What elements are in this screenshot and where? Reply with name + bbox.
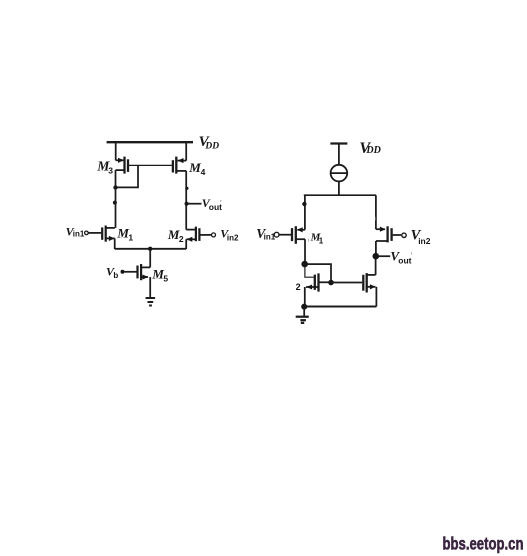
- svg-text:DD: DD: [365, 145, 380, 156]
- M5 label: [151, 266, 168, 283]
- wire Vout stub: [187, 203, 202, 205]
- transistor M5 (NMOS tail source): [125, 249, 151, 298]
- transistor M3 (PMOS, diode-connected): [116, 141, 129, 173]
- Vb label: [106, 265, 118, 280]
- M1 right label: [310, 231, 324, 245]
- ground stem right: [303, 307, 305, 316]
- svg-text:2: 2: [296, 282, 301, 292]
- ground (left circuit): [146, 298, 156, 306]
- svg-text:2: 2: [179, 234, 184, 244]
- svg-text:b: b: [113, 271, 118, 280]
- bottom rail right circuit: [304, 306, 376, 308]
- wire right vertical M4 drain to M2 drain: [185, 171, 187, 230]
- node dot tail: [148, 247, 152, 251]
- M1 label: [116, 225, 133, 242]
- VDD rail: [107, 141, 193, 143]
- node Vout dot: [185, 202, 189, 206]
- svg-text:in1: in1: [73, 230, 85, 239]
- Vin1 label right: [256, 226, 276, 242]
- Vin2 label right: [411, 228, 431, 246]
- svg-text:′: ′: [411, 251, 413, 261]
- wire current source to rail: [338, 181, 340, 195]
- svg-text:1: 1: [128, 232, 133, 242]
- VDD label right: [359, 140, 380, 157]
- M3 label: [96, 158, 113, 175]
- transistor M1 right (PMOS input): [279, 226, 305, 264]
- M4 label: [188, 160, 205, 177]
- svg-text:1: 1: [319, 236, 324, 245]
- Vin2 terminal right: [402, 233, 406, 237]
- transistor M4 (PMOS): [173, 141, 186, 173]
- svg-text:in2: in2: [227, 233, 239, 242]
- wire T-bar to current source: [338, 144, 340, 165]
- Vout label: [202, 196, 222, 212]
- wire mirror gates: [331, 282, 362, 284]
- Vb terminal: [121, 270, 125, 274]
- svg-text:DD: DD: [204, 141, 219, 151]
- node Vout dot right: [373, 253, 380, 260]
- bottom node dot: [301, 304, 307, 310]
- wire gate-to-gate M3-M4: [129, 164, 172, 166]
- wire left vertical to M1 source: [304, 195, 306, 230]
- wire Vin1 to M1 gate: [88, 232, 101, 234]
- node dot lower left: [113, 201, 117, 205]
- node A dot (mirror input): [301, 261, 308, 268]
- svg-text:3: 3: [108, 165, 113, 175]
- wire gate feed (thin) from node A to left mirror gate: [305, 266, 314, 277]
- current source I: [331, 165, 348, 182]
- svg-text:4: 4: [201, 167, 206, 177]
- label 2: [296, 282, 301, 292]
- transistor M2 right (PMOS input, mirrored): [376, 195, 401, 256]
- svg-text:in2: in2: [418, 236, 431, 246]
- wire Vout stub right: [379, 255, 390, 257]
- Vin2 terminal: [212, 233, 216, 237]
- watermark bbs.eetop.cn: [443, 533, 524, 553]
- Vout label right: [390, 249, 412, 266]
- node dot small upper right: [185, 187, 188, 190]
- svg-text:5: 5: [163, 273, 168, 283]
- M2 label: [167, 227, 184, 244]
- Vin1 terminal circle: [85, 231, 89, 235]
- VDD label: [199, 134, 220, 152]
- ground (right circuit): [296, 317, 309, 323]
- scan artifact comma: [308, 239, 310, 242]
- Vin1 label: [66, 224, 85, 238]
- scan artifact tick: [374, 217, 376, 221]
- wire left vertical M3 drain to M1 drain: [115, 170, 117, 228]
- node dot on left rail (diode tie): [113, 185, 117, 189]
- Vin2 label: [220, 227, 239, 243]
- wire diode connection of M3: [116, 165, 139, 187]
- svg-text:bbs.eetop.cn: bbs.eetop.cn: [443, 533, 524, 553]
- transistor M1 (NMOS): [102, 226, 115, 250]
- svg-text:in1: in1: [264, 233, 276, 242]
- VDD T-bar: [330, 142, 347, 144]
- Vin1 terminal right: [274, 232, 279, 237]
- top rail right circuit: [304, 194, 376, 196]
- wire common-source rail: [115, 248, 187, 250]
- transistor M2 (NMOS, mirrored): [186, 227, 211, 249]
- junction dot mirror: [328, 280, 334, 286]
- wire node A right then down to mirror gate/drain: [305, 264, 331, 282]
- svg-text:M: M: [188, 160, 201, 175]
- transistor mirror right (NMOS): [363, 256, 376, 307]
- transistor mirror left (NMOS diode): [305, 273, 331, 306]
- small node dot: [302, 202, 306, 206]
